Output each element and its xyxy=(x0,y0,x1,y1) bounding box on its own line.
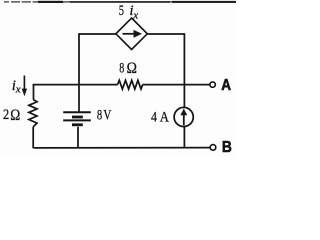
wire 2ohm branch lower xyxy=(32,127,34,148)
wire left vertical lower xyxy=(77,127,79,148)
wire top rail right xyxy=(147,33,184,35)
terminal B xyxy=(210,145,216,151)
label ix xyxy=(12,78,21,95)
resistor 8ohm xyxy=(118,80,143,89)
resistor 2ohm xyxy=(29,100,37,127)
svg-text:x: x xyxy=(15,83,21,95)
svg-text:x: x xyxy=(132,9,138,21)
svg-text:5: 5 xyxy=(119,3,124,19)
svg-text:Ω: Ω xyxy=(127,60,137,77)
svg-text:8: 8 xyxy=(97,107,102,123)
terminal A xyxy=(210,82,215,87)
wire right vertical lower xyxy=(183,127,185,149)
svg-text:2: 2 xyxy=(3,107,9,123)
label 8V xyxy=(97,107,112,123)
wire 2ohm branch upper xyxy=(33,85,35,100)
wire right vertical upper xyxy=(183,33,185,107)
dependent current source diamond 5ix xyxy=(116,18,147,50)
label 4A xyxy=(151,110,169,126)
wire middle rail left xyxy=(34,83,118,86)
label B xyxy=(222,139,232,156)
svg-text:A: A xyxy=(160,110,169,126)
svg-text:8: 8 xyxy=(119,60,124,76)
svg-text:Ω: Ω xyxy=(10,107,20,124)
wire bottom rail xyxy=(34,147,211,149)
top rule line xyxy=(4,1,236,3)
label 5 ix xyxy=(119,3,139,21)
label A xyxy=(221,77,231,94)
label 2ohm xyxy=(3,107,20,124)
wire middle rail right xyxy=(143,84,210,86)
svg-text:A: A xyxy=(221,77,231,94)
svg-text:V: V xyxy=(103,107,111,123)
svg-text:B: B xyxy=(222,139,232,156)
wire top rail left xyxy=(79,33,116,35)
current arrow ix xyxy=(22,76,27,97)
svg-text:4: 4 xyxy=(151,110,157,126)
label 8ohm xyxy=(119,60,137,77)
battery 8V xyxy=(63,112,91,126)
current source 4A xyxy=(174,107,193,126)
wire left vertical upper xyxy=(78,33,80,111)
